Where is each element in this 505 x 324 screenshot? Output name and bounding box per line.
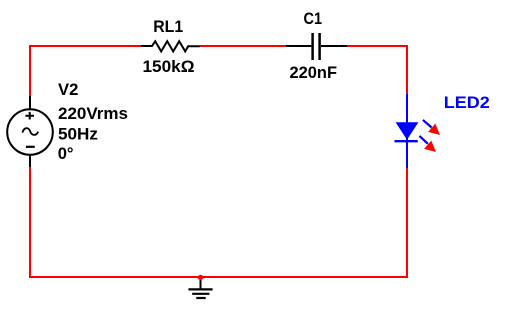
svg-text:220nF: 220nF bbox=[290, 63, 338, 82]
svg-text:220Vrms: 220Vrms bbox=[58, 104, 128, 123]
LED emission arrow 2 bbox=[419, 136, 436, 152]
wire right segment lower (LED cathode to bottom corner) bbox=[406, 168, 408, 278]
wire left segment upper (corner to source) bbox=[29, 45, 31, 96]
svg-text:150kΩ: 150kΩ bbox=[143, 57, 195, 76]
capacitor C1 bbox=[286, 33, 347, 60]
wire top segment 2 (resistor to capacitor) bbox=[200, 45, 286, 47]
svg-text:RL1: RL1 bbox=[153, 17, 183, 36]
svg-text:V2: V2 bbox=[58, 80, 78, 99]
wire left segment lower (source to bottom corner) bbox=[29, 167, 31, 278]
resistor RL1 bbox=[141, 41, 200, 51]
svg-text:0°: 0° bbox=[58, 144, 74, 163]
svg-text:LED2: LED2 bbox=[444, 93, 490, 112]
AC voltage source V2 bbox=[7, 96, 53, 167]
LED D: LED2 bbox=[395, 94, 419, 168]
wire right segment upper (corner to LED anode) bbox=[406, 45, 408, 94]
wire bottom segment bbox=[29, 276, 408, 278]
svg-text:C1: C1 bbox=[304, 9, 323, 28]
wire top segment 3 (capacitor to right corner) bbox=[347, 45, 407, 47]
wire top segment 1 (corner to resistor) bbox=[29, 45, 141, 47]
ground bbox=[188, 278, 212, 298]
junction dot at ground node bbox=[198, 275, 203, 280]
LED emission arrow 1 bbox=[423, 120, 440, 135]
svg-text:50Hz: 50Hz bbox=[58, 124, 98, 143]
